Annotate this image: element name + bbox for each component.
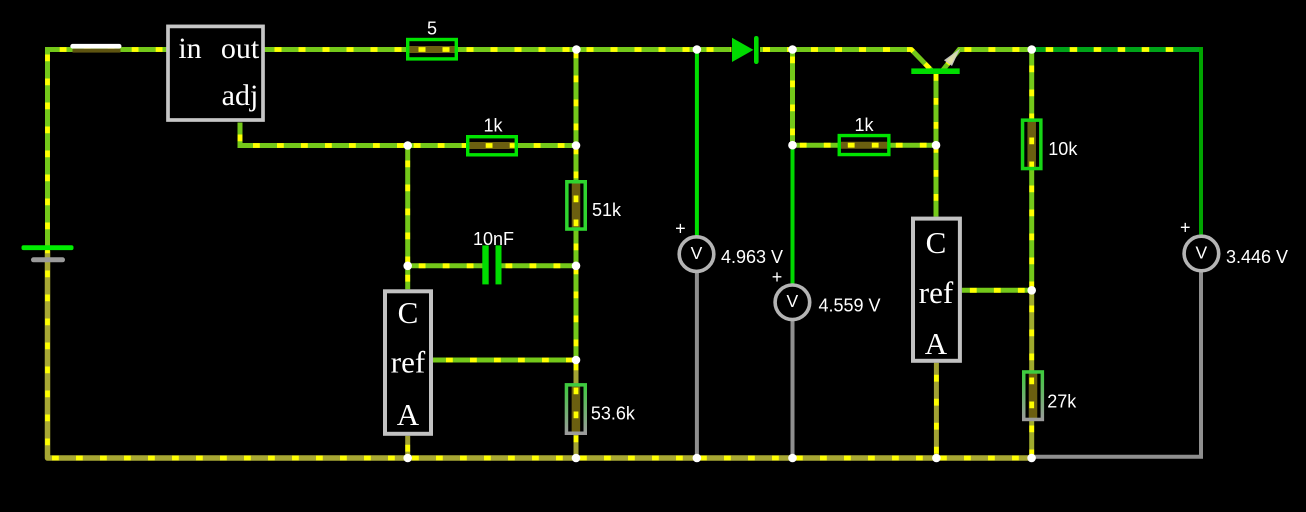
current dashes top run [265, 47, 732, 52]
node rail main junction [572, 454, 581, 463]
svg-text:27k: 27k [1047, 392, 1077, 412]
svg-text:C: C [398, 295, 419, 330]
wire battery- down left column and bottom ground rail [48, 251, 1032, 459]
svg-text:53.6k: 53.6k [591, 403, 636, 423]
svg-text:4.963 V: 4.963 V [721, 247, 783, 267]
wire right column node C down through R6 [1029, 50, 1034, 291]
resistor R3 51k interior [572, 181, 581, 230]
transistor Q1 emitter arrow [945, 50, 959, 65]
voltmeter M2 circle [775, 285, 810, 320]
svg-text:out: out [221, 32, 260, 65]
resistor R7 27k interior [1029, 372, 1038, 419]
capacitor C1 right plate [496, 245, 502, 284]
svg-text:51k: 51k [592, 200, 622, 220]
resistor R5 1k interior [840, 142, 889, 149]
svg-text:10nF: 10nF [473, 229, 514, 249]
battery V1 positive plate [22, 245, 74, 250]
resistor R6 border [1023, 120, 1041, 168]
resistor R4 53.6k interior [572, 385, 581, 433]
svg-text:+: + [1180, 218, 1191, 238]
voltmeter M1 circle [679, 237, 714, 272]
box U2 C ref A [385, 291, 431, 434]
node C junction [1027, 45, 1036, 54]
wire box U3 bottom pin [934, 363, 939, 458]
svg-text:+: + [772, 267, 783, 287]
node rail U2 junction [403, 454, 412, 463]
current dashes U2 pins [405, 266, 410, 458]
wire transistor emitter diagonal [943, 50, 1032, 71]
node B junction [788, 45, 797, 54]
wire diode to node B [760, 47, 911, 52]
resistor R6 10k interior [1027, 120, 1036, 168]
node ref1 junction [572, 356, 581, 365]
resistor R1 5 ohm interior [408, 46, 456, 53]
wire cap row right [501, 263, 577, 268]
node adj-right junction [572, 141, 581, 150]
wire box U2 top pin [405, 266, 410, 290]
wire right corner down to voltmeter M3 [1199, 47, 1203, 237]
resistor R5 border [839, 136, 889, 155]
wire adj row through R2 [408, 143, 576, 148]
wire main column ref row to rail [574, 360, 579, 458]
svg-text:1k: 1k [483, 116, 503, 136]
svg-text:10k: 10k [1048, 139, 1078, 159]
wire right column ref2 to rail through R7 [1029, 290, 1034, 458]
node ref2 junction [1027, 286, 1036, 295]
node M1 top junction [693, 45, 702, 54]
wire main column top to ref row [574, 50, 579, 361]
svg-text:C: C [926, 225, 947, 260]
node cap-left junction [403, 262, 412, 271]
current dashes left column [405, 146, 410, 266]
diode D1 bar [754, 36, 759, 64]
wire transistor base down to box U3 [934, 71, 939, 217]
node rail M2 junction [788, 454, 797, 463]
wire left column R2 to cap row [405, 146, 410, 266]
wire transistor collector diagonal [911, 50, 931, 71]
svg-text:V: V [691, 243, 703, 263]
current dashes ref row [433, 358, 576, 363]
node base junction [932, 141, 941, 150]
voltmeter M3 circle [1184, 236, 1219, 271]
transistor Q1 base bar [911, 68, 959, 74]
capacitor C1 left plate [482, 245, 488, 284]
svg-text:V: V [787, 291, 799, 311]
svg-text:3.446 V: 3.446 V [1226, 247, 1288, 267]
current dashes adj branch [240, 123, 408, 146]
svg-text:4.559 V: 4.559 V [819, 296, 881, 316]
svg-text:+: + [675, 219, 686, 239]
current dashes cap left [408, 263, 483, 268]
wire adj pin [240, 123, 408, 146]
svg-text:V: V [1196, 242, 1208, 262]
current dashes base column [934, 71, 939, 217]
resistor R4 border [566, 385, 585, 433]
node rail U3 junction [932, 454, 941, 463]
wire cap row left [408, 263, 483, 268]
wire regulator out to node A [265, 47, 732, 52]
wire U3 ref output row [962, 288, 1032, 293]
node cap-right junction [572, 262, 581, 271]
current dashes node B column [793, 50, 937, 146]
battery V1 negative plate [31, 257, 65, 262]
current dashes diode to transistor [760, 50, 932, 71]
svg-text:A: A [925, 326, 948, 361]
wire R5 row to transistor base column [793, 143, 937, 148]
wire voltmeter M2 top lead [791, 145, 795, 286]
node rail M1 junction [693, 454, 702, 463]
wire voltmeter M2 ground lead [791, 319, 795, 458]
svg-text:in: in [178, 32, 201, 65]
current dashes main column [574, 50, 579, 459]
switch S1 shadow [73, 49, 121, 53]
box U3 C ref A [913, 219, 960, 361]
resistor R2 border [468, 137, 517, 155]
current dashes right column [1029, 50, 1034, 459]
resistor R3 border [567, 182, 585, 229]
resistor R1 border [408, 40, 457, 59]
resistor R7 border [1024, 372, 1043, 420]
current dashes R2 row [408, 143, 576, 148]
svg-text:ref: ref [919, 275, 954, 310]
current dashes emitter run [943, 50, 1032, 71]
wire voltmeter M3 ground lead [1032, 270, 1201, 457]
current dashes U3 bottom pin [934, 363, 939, 458]
wire node B down to R5 row [790, 50, 795, 146]
wire voltmeter M1 top lead [695, 50, 699, 239]
current dashes dark green run [1032, 47, 1186, 52]
switch S1 blade [70, 44, 121, 49]
svg-text:adj: adj [222, 79, 259, 112]
regulator U1 box [168, 26, 263, 120]
current dashes cap right [501, 263, 577, 268]
svg-text:5: 5 [427, 19, 437, 39]
svg-text:ref: ref [391, 345, 426, 380]
wire node C to right corner [1032, 47, 1201, 52]
svg-text:A: A [397, 397, 420, 432]
wire voltmeter M1 ground lead [695, 271, 699, 458]
svg-text:1k: 1k [854, 115, 874, 135]
resistor R2 1k interior [468, 142, 516, 149]
wire box U2 bottom pin [405, 436, 410, 458]
wire battery+ up left column [48, 50, 167, 246]
current dashes ref2 row [962, 288, 1032, 293]
diode D1 triangle [732, 38, 754, 62]
node adj-left junction [403, 141, 412, 150]
node A junction [572, 45, 581, 54]
current dashes battery branch [48, 50, 1032, 459]
node R5-left junction [788, 141, 797, 150]
wire U2 ref output row [433, 358, 576, 363]
node rail right junction [1027, 454, 1036, 463]
